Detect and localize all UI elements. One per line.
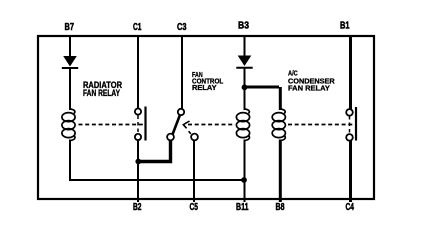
svg-text:B11: B11 [236, 201, 249, 213]
wire coil L2 to pin B11 [244, 140, 246, 203]
label RADIATOR FAN RELAY [83, 80, 122, 98]
dashed actuation line from switch S1 to coil L2 [188, 124, 235, 126]
wire coil L1 down and right to node B11 [70, 140, 244, 181]
wire diode D2 to junction [244, 68, 246, 88]
junction node at B2 wire [135, 159, 141, 165]
diode D2 (fan control relay clamp) [236, 56, 252, 68]
dashed actuation arrow at switch S1 [183, 121, 191, 134]
wire branch from junction to coil L3 [245, 87, 281, 110]
wire diode to coil L1 [69, 68, 71, 110]
svg-text:FAN RELAY: FAN RELAY [83, 88, 120, 98]
svg-text:B8: B8 [276, 201, 285, 213]
svg-text:C1: C1 [133, 21, 142, 33]
wire contact K3 to pin C4 [349, 141, 352, 203]
svg-text:RELAY: RELAY [192, 83, 217, 92]
svg-text:C3: C3 [177, 21, 187, 33]
relay box outline [38, 36, 374, 199]
svg-text:B1: B1 [340, 20, 350, 32]
wire switch NO contact to pin C5 [193, 140, 195, 202]
svg-text:C4: C4 [346, 201, 355, 213]
svg-text:FAN RELAY: FAN RELAY [288, 84, 330, 93]
relay coil L2 (fan control relay) [236, 109, 249, 141]
svg-text:B7: B7 [65, 21, 75, 33]
wire B3 from top border to diode [244, 36, 246, 56]
wire B7 from top border to diode [69, 36, 71, 57]
wire switch common elbow to node on B2 wire [140, 140, 171, 162]
dashed actuation line from coil L3 to contact K3 [288, 124, 353, 126]
svg-text:B2: B2 [133, 201, 142, 213]
relay coil L3 (A/C condenser fan relay) [272, 109, 285, 141]
wire junction to coil L2 [244, 88, 246, 110]
contact K1 (radiator fan relay contact) [135, 107, 146, 141]
svg-text:B3: B3 [238, 20, 249, 32]
wire B1 from top border to contact K3 [349, 36, 352, 109]
relay coil L1 (radiator fan relay) [62, 109, 75, 141]
label FAN CONTROL RELAY [192, 70, 224, 92]
contact K3 (A/C condenser fan relay contact) [346, 107, 356, 141]
wire C1 from top border to contact [137, 36, 139, 109]
svg-text:C5: C5 [190, 201, 199, 213]
diode D1 (radiator fan relay clamp) [62, 56, 78, 68]
junction node on B3 branch [242, 84, 248, 90]
wire C3 from top border to switch [181, 36, 183, 109]
junction node where radiator coil return meets B11 wire [241, 177, 247, 183]
label A/C CONDENSER FAN RELAY [288, 69, 335, 93]
switch S1 (fan control relay contacts) [167, 109, 198, 141]
wire contact to pin B2 [137, 140, 139, 202]
dashed actuation line from coil L1 to contact K1 [79, 124, 145, 126]
wire coil L3 to pin B8 [279, 140, 282, 203]
